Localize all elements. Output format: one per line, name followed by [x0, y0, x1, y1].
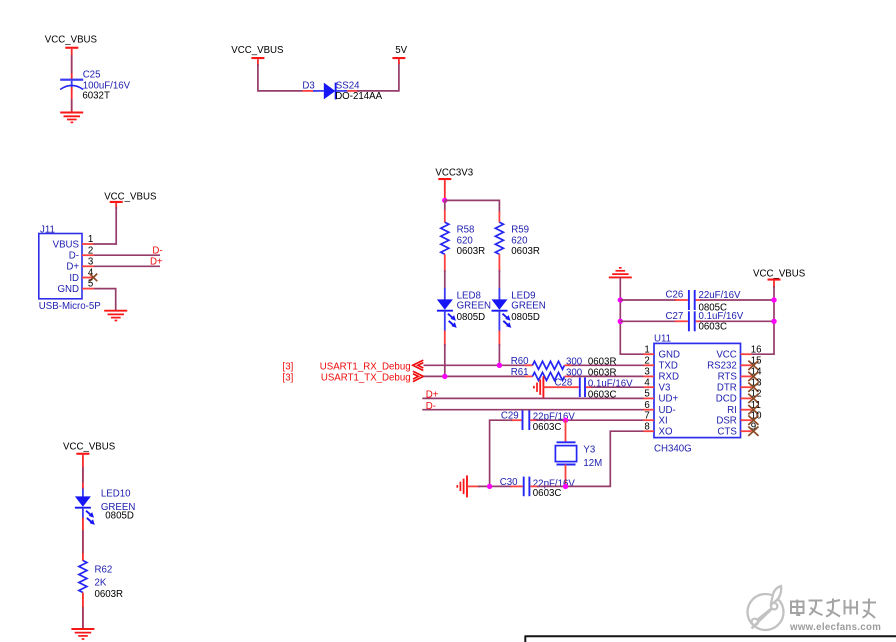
wire LED8 down to TX net — [444, 311, 446, 377]
wire J11 pin 5 to ground — [94, 289, 116, 311]
pin 12 U11 DCD — [716, 389, 762, 405]
ground (rotated, C28) — [534, 376, 544, 398]
svg-text:1: 1 — [644, 344, 649, 355]
pin 2 U11 TXD — [644, 356, 678, 372]
svg-text:D+: D+ — [66, 262, 79, 273]
svg-text:0805D: 0805D — [457, 312, 486, 323]
svg-text:8: 8 — [644, 421, 649, 432]
node C26 left junction — [618, 297, 623, 302]
resistor R62 2K 0603R — [79, 561, 123, 601]
op-amp U11 CH340G body — [654, 333, 741, 454]
resistor R59 620 0603R — [495, 222, 539, 257]
svg-text:4: 4 — [644, 377, 650, 388]
svg-text:7: 7 — [644, 410, 649, 421]
LED9 GREEN 0805D — [492, 290, 546, 328]
LED8 GREEN 0805D — [437, 290, 491, 328]
svg-text:C26: C26 — [666, 289, 684, 300]
ground (above C26) — [609, 268, 632, 278]
no-connect X pin 11 — [748, 405, 758, 414]
no-connect X pin 14 — [748, 372, 758, 381]
wire LED9 down to RX net — [498, 311, 500, 366]
pin 5 J11 GND — [82, 279, 94, 290]
wire VCC3V3 to junction — [444, 180, 446, 201]
port chevron TX >> — [413, 371, 424, 381]
title block border (partial, bottom-right) — [525, 636, 896, 642]
pin 1 U11 GND — [644, 344, 681, 360]
svg-text:0603C: 0603C — [533, 422, 562, 433]
capacitor C26 22uF/16V 0805C — [666, 289, 742, 313]
svg-text:DTR: DTR — [717, 383, 737, 394]
svg-text:RTS: RTS — [718, 372, 738, 383]
svg-text:DSR: DSR — [716, 416, 736, 427]
wire junction to R58 — [444, 200, 446, 222]
svg-text:VCC3V3: VCC3V3 — [435, 167, 473, 178]
svg-text:16: 16 — [751, 344, 762, 355]
svg-text:2: 2 — [644, 356, 649, 367]
no-connect X pin 10 — [748, 416, 758, 425]
port chevron RX << — [413, 360, 424, 370]
node Y3 bottom junction — [563, 484, 568, 489]
no-connect X on pin 4 — [90, 274, 98, 282]
svg-text:2K: 2K — [95, 578, 107, 589]
svg-text:5V: 5V — [395, 45, 407, 56]
wire Y3 down to C30 net — [565, 465, 567, 487]
power flag VCC3V3 — [435, 167, 473, 180]
pin 13 U11 DTR — [717, 377, 762, 393]
svg-text:LED10: LED10 — [101, 489, 131, 500]
svg-text:USART1_TX_Debug: USART1_TX_Debug — [321, 373, 411, 384]
wire C26 row — [620, 299, 774, 301]
wire VCC_VBUS down and right to D3 anode — [258, 59, 324, 91]
ground (C25) — [60, 113, 83, 123]
wire VCC_VBUS to C25 — [71, 49, 73, 80]
pin 8 U11 XO — [644, 421, 673, 437]
svg-text:0603C: 0603C — [699, 322, 728, 333]
pin 3 U11 RXD — [644, 367, 679, 383]
no-connect X pin 12 — [748, 394, 758, 403]
svg-text:RI: RI — [727, 405, 737, 416]
pin 2 J11 D- — [82, 245, 94, 256]
svg-text:R59: R59 — [511, 224, 529, 235]
svg-text:12M: 12M — [583, 458, 602, 469]
svg-text:3: 3 — [644, 367, 649, 378]
wire C30 right to U11 pin 8 (XO) — [530, 431, 644, 486]
svg-text:R60: R60 — [511, 356, 529, 367]
pin 6 U11 UD- — [644, 400, 676, 416]
wire ground to C28 left plate — [543, 386, 578, 388]
svg-text:0603R: 0603R — [95, 589, 124, 600]
wire J11 pin 2 net D- — [94, 254, 160, 256]
svg-text:VCC_VBUS: VCC_VBUS — [45, 35, 98, 46]
node C30 left junction — [487, 484, 492, 489]
svg-text:0805D: 0805D — [105, 510, 134, 521]
node LED9 to RX junction — [497, 363, 502, 368]
svg-text:6: 6 — [644, 400, 649, 411]
pin 7 U11 XI — [644, 410, 668, 426]
wire branch to R59 column — [445, 200, 500, 222]
svg-text:VCC_VBUS: VCC_VBUS — [753, 268, 806, 279]
wire LED10 to R62 — [82, 508, 84, 561]
resistor R60 300 0603R — [511, 356, 617, 370]
wire ground to C30 — [467, 485, 523, 487]
node XI / Y3 junction — [563, 418, 568, 423]
no-connect X pin 15 — [748, 361, 758, 370]
ground (J11) — [104, 311, 127, 321]
svg-text:0805D: 0805D — [511, 312, 540, 323]
svg-text:Y3: Y3 — [583, 445, 595, 456]
pin 4 U11 V3 — [644, 377, 671, 393]
svg-text:DO-214AA: DO-214AA — [335, 91, 382, 102]
wire VCC_VBUS to LED10 — [82, 455, 84, 497]
wire C27 row — [620, 320, 774, 322]
pin 3 J11 D+ — [82, 256, 94, 267]
wire VCC_VBUS to J11 pin 1 — [94, 203, 117, 244]
pin 15 U11 RS232 — [707, 356, 761, 372]
power flag VCC_VBUS (D3 branch) — [231, 45, 284, 59]
svg-text:0603C: 0603C — [533, 488, 562, 499]
node C27 left junction — [618, 319, 623, 324]
wire D3 cathode to 5V — [347, 59, 399, 91]
node C27 right junction — [771, 319, 776, 324]
node C26 right junction — [771, 297, 776, 302]
svg-text:GREEN: GREEN — [457, 300, 491, 311]
svg-text:SS24: SS24 — [336, 80, 360, 91]
power flag VCC_VBUS (J11) — [104, 192, 157, 203]
wire R62 to ground — [82, 593, 84, 630]
no-connect X pin 13 — [748, 383, 758, 392]
svg-text:[3]: [3] — [283, 361, 294, 372]
svg-text:0.1uF/16V: 0.1uF/16V — [699, 311, 744, 322]
svg-text:TXD: TXD — [659, 361, 678, 372]
node LED8 to TX junction — [442, 374, 447, 379]
wire D+ to U11 pin 5 — [422, 397, 644, 399]
capacitor C25 — [60, 70, 130, 102]
svg-text:VCC_VBUS: VCC_VBUS — [231, 45, 284, 56]
power flag VCC_VBUS (top-left) — [45, 35, 98, 49]
power flag VCC_VBUS (LED10) — [63, 442, 116, 455]
svg-text:CTS: CTS — [717, 427, 737, 438]
svg-text:RXD: RXD — [659, 372, 679, 383]
node VCC3V3 branch junction — [442, 198, 447, 203]
capacitor C30 22pF/16V 0603C — [500, 477, 576, 499]
watermark logo (elecfans) — [748, 586, 784, 630]
svg-text:D-: D- — [152, 246, 162, 257]
wire RX net to R60 — [424, 364, 533, 366]
svg-text:DCD: DCD — [716, 394, 737, 405]
power flag VCC_VBUS (U11) — [753, 268, 806, 280]
wire ground down to U11 pin 1 — [620, 277, 644, 354]
svg-text:[3]: [3] — [283, 373, 294, 384]
capacitor C28 0.1uF/16V 0603C — [555, 377, 634, 400]
resistor R58 620 0603R — [441, 222, 485, 257]
svg-text:0603R: 0603R — [511, 246, 540, 257]
crystal Y3 12M — [555, 442, 602, 469]
pin 1 J11 VBUS — [82, 234, 94, 245]
pin 4 J11 ID — [82, 268, 94, 279]
wire R59 to LED9 — [498, 254, 500, 299]
ground (LED10/R62) — [71, 629, 94, 639]
svg-text:ID: ID — [69, 273, 79, 284]
svg-text:www.elecfans.com: www.elecfans.com — [789, 622, 881, 633]
pin 14 U11 RTS — [718, 367, 763, 383]
svg-text:C27: C27 — [666, 311, 684, 322]
svg-text:6032T: 6032T — [82, 91, 110, 102]
svg-text:C25: C25 — [83, 70, 101, 81]
pin 16 U11 VCC — [716, 344, 761, 360]
connector J11 USB-Micro-5P — [39, 224, 101, 312]
capacitor C27 0.1uF/16V 0603C — [666, 311, 744, 333]
pin 9 U11 CTS — [717, 421, 756, 437]
svg-text:CH340G: CH340G — [654, 444, 692, 455]
wire R58 to LED8 — [444, 254, 446, 299]
pin 11 U11 RI — [727, 400, 761, 416]
svg-text:UD-: UD- — [659, 405, 676, 416]
svg-text:C29: C29 — [501, 411, 519, 422]
wire R61 to U11 pin 3 — [565, 375, 644, 377]
watermark text 电子发烧友 (glyph approximations) — [791, 599, 876, 619]
svg-text:V3: V3 — [659, 383, 671, 394]
svg-text:D-: D- — [69, 251, 79, 262]
svg-text:R61: R61 — [511, 367, 529, 378]
svg-text:R58: R58 — [457, 224, 475, 235]
no-connect X pin 9 — [748, 427, 758, 436]
wire J11 pin 3 net D+ — [94, 265, 160, 267]
svg-text:USB-Micro-5P: USB-Micro-5P — [39, 301, 101, 312]
wire VCC_VBUS down to U11 pin 16 — [751, 281, 774, 355]
wire C25 to ground — [71, 87, 73, 112]
svg-text:UD+: UD+ — [659, 394, 679, 405]
svg-text:0603R: 0603R — [457, 246, 486, 257]
svg-text:5: 5 — [644, 389, 649, 400]
wire D- to U11 pin 6 — [422, 409, 644, 411]
svg-text:R62: R62 — [95, 564, 113, 575]
diode D3 SS24 — [302, 80, 382, 102]
svg-text:D3: D3 — [302, 80, 314, 91]
svg-text:RS232: RS232 — [707, 361, 737, 372]
pin 10 U11 DSR — [716, 410, 762, 426]
svg-text:VBUS: VBUS — [53, 239, 80, 250]
wire C29 to U11 pin 7 (XI) — [530, 419, 644, 421]
wire XI junction down to Y3 — [565, 420, 567, 442]
svg-text:XI: XI — [659, 416, 668, 427]
svg-text:22uF/16V: 22uF/16V — [699, 290, 742, 301]
pin 5 U11 UD+ — [644, 389, 679, 405]
svg-text:GREEN: GREEN — [511, 300, 545, 311]
svg-text:XO: XO — [659, 427, 673, 438]
wire TX net to R61 — [424, 375, 533, 377]
power flag 5V — [392, 45, 407, 59]
svg-text:VCC_VBUS: VCC_VBUS — [63, 442, 116, 453]
capacitor C29 22pF/16V 0603C — [501, 410, 575, 433]
svg-text:USART1_RX_Debug: USART1_RX_Debug — [320, 361, 411, 372]
ground (rotated, C30) — [457, 475, 467, 497]
wire C28 to U11 pin 4 — [586, 386, 644, 388]
svg-text:GND: GND — [57, 284, 79, 295]
wire R60 to U11 pin 2 — [565, 364, 644, 366]
svg-text:D+: D+ — [150, 257, 163, 268]
svg-text:C30: C30 — [500, 477, 518, 488]
wire C29 left to C30 branch — [490, 420, 522, 486]
svg-text:VCC: VCC — [716, 350, 736, 361]
svg-text:C28: C28 — [555, 378, 573, 389]
svg-text:GND: GND — [659, 350, 681, 361]
LED10 GREEN 0805D — [75, 489, 135, 525]
resistor R61 300 0603R — [511, 367, 617, 381]
